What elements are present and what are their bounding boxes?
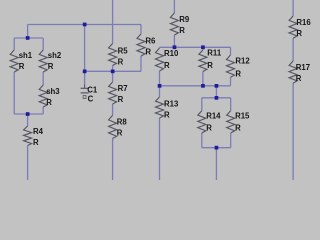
resistor sh3 [39,85,60,107]
wire bus y86 [160,85,231,87]
svg-text:R10: R10 [164,49,179,58]
wire R16-R17 [292,38,294,61]
wire box bottom bus [202,147,231,149]
resistor sh1 [10,50,33,72]
wire R15 bottom lead [230,133,232,148]
svg-text:R: R [33,138,39,147]
svg-text:sh1: sh1 [19,51,33,60]
wire R4 to bottom edge [27,146,29,181]
svg-text:sh3: sh3 [46,87,60,96]
svg-text:R: R [118,95,124,104]
wire R9 bottom lead [173,35,175,47]
wire R6 bottom lead [140,56,142,71]
wire R6 top lead [140,25,142,35]
wire R8 to bottom edge [112,139,114,181]
wire box tail to bottom edge [215,148,217,180]
svg-text:R4: R4 [33,127,44,136]
node sh top junction [26,36,30,40]
svg-text:R17: R17 [296,63,310,72]
svg-text:R: R [19,62,25,71]
svg-text:R6: R6 [145,36,156,45]
wire R11 bottom lead [202,72,204,86]
wire R9 top entry [173,0,175,13]
capacitor C1 [81,71,98,103]
resistor R13 [156,97,179,120]
resistor R11 [199,48,222,71]
svg-text:R15: R15 [235,112,250,121]
svg-text:C1: C1 [87,85,98,94]
wire R16 top entry [292,0,294,16]
svg-text:R: R [118,58,124,67]
svg-text:R9: R9 [179,15,190,24]
wire top entry to R5 [112,0,114,44]
wire R10 top lead [159,46,161,49]
wire sh2-sh3 [42,72,44,85]
svg-text:sh2: sh2 [48,51,62,60]
svg-text:R16: R16 [296,18,311,27]
resistor R10 [156,48,179,71]
svg-text:R12: R12 [235,56,250,65]
svg-text:R13: R13 [164,100,179,109]
svg-text:R14: R14 [206,112,221,121]
svg-text:R: R [164,61,170,70]
wire sh3 bottom lead [42,107,44,114]
node sh bottom junction [26,112,30,116]
node C1 mid bus junction [83,70,87,74]
wire bus y47 [160,46,231,48]
wire R10-R13 [159,71,161,97]
wire C1 branch [84,25,86,72]
svg-text:R: R [296,74,302,83]
resistor R16 [289,16,311,38]
svg-text:R: R [296,29,302,38]
resistor sh2 [39,50,62,72]
svg-text:R: R [235,70,241,79]
node R11 bottom junction [201,84,205,88]
svg-text:R8: R8 [117,118,128,127]
resistor R4 [24,126,44,147]
resistor R14 [198,111,221,133]
resistor R8 [109,115,128,138]
node box top junction [215,96,219,100]
wire box top bus [202,97,231,99]
wire sh1 bottom lead [13,72,15,114]
svg-text:R: R [46,98,52,107]
resistor R6 [137,34,156,57]
wire sh2 top lead [42,38,44,50]
wire left drop [27,25,29,39]
svg-text:R11: R11 [207,48,222,57]
wire mid bus y71 [85,70,141,72]
node box branch junction [215,84,219,88]
resistor R12 [227,55,251,79]
svg-text:R: R [117,129,123,138]
svg-text:R7: R7 [118,84,128,93]
wire R15 top lead [230,98,232,111]
svg-text:R: R [206,124,212,133]
wire R11 top lead [202,47,204,50]
resistor R5 [109,44,129,67]
resistor R17 [289,61,310,83]
wire R7-R8 [112,104,114,115]
svg-text:R: R [48,62,54,71]
wire sh top bus [14,37,43,39]
wire R14 bottom lead [201,133,203,148]
wire sh bottom bus [14,113,43,115]
node R10/R13 junction [158,84,162,88]
wire R5-R7 [112,66,114,83]
wire R4 top lead [27,114,29,126]
svg-text:R: R [164,111,170,120]
wire R12 top lead [230,47,232,55]
wire R14 top lead [201,98,203,111]
svg-text:R: R [145,48,151,57]
wire top bus [28,24,141,26]
wire branch to box [215,86,217,98]
node box bottom junction [215,146,219,150]
svg-text:R: R [179,26,185,35]
resistor R15 [227,111,250,133]
node R5/R7 junction [111,70,115,74]
node C1 top bus junction [83,23,87,27]
node R9 bottom junction [173,45,177,49]
node R11 top junction [201,45,205,49]
svg-text:C: C [88,94,94,103]
wire sh1 top lead [13,38,15,50]
svg-text:R: R [207,61,213,70]
resistor R9 [170,13,190,35]
resistor R7 [109,82,128,104]
wire R12 bottom lead [230,77,232,86]
svg-text:R5: R5 [118,47,129,56]
wire R17 to bottom edge [292,83,294,180]
wire R13 to bottom edge [159,118,161,180]
svg-text:R: R [235,124,241,133]
